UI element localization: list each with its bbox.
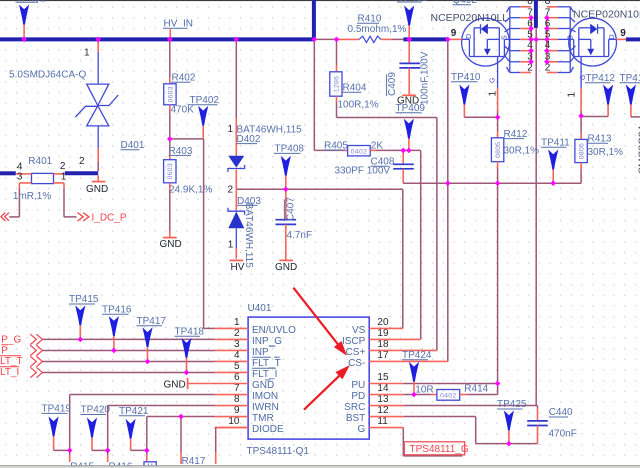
wire IWRN pin8 run <box>108 406 215 451</box>
value 24.9K,1% <box>169 184 212 195</box>
svg-text:CS+: CS+ <box>346 347 366 358</box>
wire BST pin12 run <box>369 417 476 444</box>
resistor R413 30R <box>575 116 587 183</box>
value 100nF,100V (rotated) <box>419 51 430 105</box>
pin name overbars <box>252 346 280 380</box>
svg-text:D: D <box>466 34 473 39</box>
wire bus vertical riser x=536 <box>534 0 538 28</box>
test point TP402 <box>188 95 220 139</box>
wire R414 right to PU <box>460 394 498 396</box>
test point TP409 <box>396 103 426 150</box>
svg-text:10R: 10R <box>415 385 433 396</box>
value BAT46WH,115 (D402) <box>237 125 303 136</box>
svg-text:LT_I: LT_I <box>0 367 19 378</box>
svg-text:NCEP020N10LL: NCEP020N10LL <box>573 8 640 20</box>
svg-text:P_G: P_G <box>1 335 21 346</box>
wire R403 bottom lead <box>169 183 171 237</box>
wire R401 bus right segment <box>65 171 98 175</box>
node HV_IN net label <box>163 18 193 37</box>
pin names U401 right <box>342 325 366 435</box>
window edge strip bottom <box>0 465 640 468</box>
value 470nF <box>549 428 577 439</box>
resistor R403 24.9K <box>164 139 176 183</box>
wire PU pin15 run <box>369 384 497 395</box>
value 330PF 100V <box>335 166 391 177</box>
value clipped right edge (rotated) <box>637 125 640 174</box>
value 100R,1% <box>338 100 379 111</box>
wire diode mid node horizontal to VS <box>237 188 403 190</box>
test point TP424 <box>402 350 432 395</box>
svg-text:30R,1%: 30R,1% <box>588 147 624 158</box>
svg-text:470nF: 470nF <box>549 428 577 439</box>
wire VS vertical to pin20 <box>402 189 404 328</box>
test point TP418 <box>175 327 205 373</box>
svg-text:14: 14 <box>377 383 389 394</box>
test point TP420 <box>81 405 111 451</box>
wire R402 bottom lead <box>169 105 171 139</box>
svg-text:BAT46WH,115: BAT46WH,115 <box>243 203 254 269</box>
svg-text:TP419: TP419 <box>42 404 72 415</box>
svg-text:CS-: CS- <box>348 358 365 369</box>
svg-text:10: 10 <box>228 416 240 427</box>
svg-text:5: 5 <box>234 361 240 372</box>
wire G pin11 run <box>369 428 462 456</box>
wire R402 top lead <box>169 41 171 83</box>
wire PD pin14 run <box>369 394 437 396</box>
wire HV_IN bus horizontal <box>0 37 314 41</box>
ground below C409 <box>397 95 419 106</box>
svg-text:1: 1 <box>61 171 67 182</box>
svg-text:TPS48111-Q1: TPS48111-Q1 <box>247 446 310 457</box>
ground below R403 <box>160 238 182 251</box>
svg-text:100R,1%: 100R,1% <box>338 100 379 111</box>
wire CS+ pin18 stub <box>369 349 437 351</box>
label U401 <box>248 303 272 314</box>
value 470K <box>171 105 195 116</box>
transistor Q402 left MOSFET NCEP020N10LL <box>448 18 510 66</box>
svg-text:HV_IN: HV_IN <box>164 18 193 29</box>
wire bus vertical riser x=314 <box>312 0 316 39</box>
test point TP410 <box>451 72 498 117</box>
svg-text:S: S <box>568 35 575 40</box>
wire D401 bottom lead <box>97 126 99 171</box>
wire gate-return horizontal run y=183 <box>403 182 581 184</box>
pin 1 G labels right gate <box>567 75 588 98</box>
svg-text:PD: PD <box>351 391 365 402</box>
svg-text:9: 9 <box>620 28 626 39</box>
test point TP411 <box>541 138 570 184</box>
wire R401 bus left segment <box>0 171 16 175</box>
svg-text:3: 3 <box>17 171 23 182</box>
wire D402 bottom lead <box>235 170 237 190</box>
wire EN/UVLO node vertical to U401 pin1 <box>204 139 215 329</box>
wire CS- pin17 stub <box>369 360 448 362</box>
svg-text:20: 20 <box>377 317 389 328</box>
svg-text:NCEP020N10LL: NCEP020N10LL <box>431 12 509 24</box>
value TPS48111-Q1 <box>247 446 310 457</box>
annotation arrow to CS+ <box>293 288 345 354</box>
svg-text:100nF,100V: 100nF,100V <box>419 51 430 105</box>
pin S D labels right MOSFET <box>568 34 616 40</box>
resistor R415 (clipped) <box>70 450 95 468</box>
svg-text:3: 3 <box>234 339 240 350</box>
resistor R412 30R <box>491 117 503 183</box>
resistor R401 1mR 4-terminal shunt <box>16 173 65 188</box>
svg-text:P: P <box>1 345 8 356</box>
svg-text:2: 2 <box>228 184 234 195</box>
svg-text:BST: BST <box>346 413 365 424</box>
wire INP_G / INP / FLT_T / FLT_I signal runs <box>42 339 214 372</box>
svg-text:12: 12 <box>377 405 389 416</box>
svg-text:9: 9 <box>451 28 457 39</box>
wire R417 branch <box>180 417 182 464</box>
wire CS+ horizontal run <box>337 117 437 119</box>
diode D402 schottky <box>228 156 245 172</box>
label R412 <box>504 129 528 140</box>
svg-text:D: D <box>609 34 616 39</box>
svg-text:1: 1 <box>234 317 240 328</box>
value 4.7nF <box>287 230 313 241</box>
label C407 (rotated) <box>284 197 296 221</box>
svg-text:TP403: TP403 <box>398 0 428 4</box>
svg-text:TP401: TP401 <box>16 0 46 5</box>
wire ISCP feed vertical from bus <box>314 41 347 150</box>
wire R401 pin1 to I_DC_P <box>64 189 77 217</box>
svg-text:2: 2 <box>79 156 85 167</box>
resistor R405 2K <box>348 146 371 156</box>
test point TP416 <box>102 305 132 351</box>
svg-text:1: 1 <box>228 124 234 135</box>
svg-text:11: 11 <box>377 416 388 427</box>
svg-text:0603: 0603 <box>167 86 174 102</box>
svg-text:PU: PU <box>351 380 365 391</box>
svg-text:GND: GND <box>160 239 182 250</box>
wire R405 right to ISCP corner <box>370 149 421 151</box>
label R401 <box>28 156 52 167</box>
svg-text:GND: GND <box>252 380 274 391</box>
test point TP401 (label clipped at top) <box>16 0 46 37</box>
ground below D401 <box>86 175 108 195</box>
wire D403 bottom lead <box>235 228 237 258</box>
svg-text:13: 13 <box>377 394 389 405</box>
resistor R410 zigzag <box>337 36 404 42</box>
diode D401 TVS 5.0SMDJ64CA-Q <box>75 84 118 126</box>
svg-text:1: 1 <box>228 240 234 251</box>
wire D402 top lead from bus <box>235 41 237 155</box>
value 0.5mohm,1% <box>348 24 407 35</box>
value 1mR,1% <box>13 191 51 202</box>
test point TP414 (clipped right) <box>620 73 640 117</box>
svg-text:HV: HV <box>231 262 245 273</box>
wire SRC pin13 run <box>369 405 537 407</box>
off-page chevron left <box>1 213 9 221</box>
capacitor C440 470nF <box>476 421 548 444</box>
svg-text:1: 1 <box>488 91 499 97</box>
value 2K <box>371 140 384 151</box>
value 10R <box>415 385 433 396</box>
wire ISCP vertical to pin19 <box>420 150 422 339</box>
svg-text:15: 15 <box>377 372 389 383</box>
label R410 <box>357 13 382 24</box>
value 30R,1% (R413) <box>588 147 624 158</box>
svg-text:TP421: TP421 <box>119 406 149 417</box>
capacitor C408 330PF <box>393 150 414 183</box>
label C408 <box>371 157 395 168</box>
label D402 <box>237 134 261 145</box>
test point TP417 <box>137 316 167 361</box>
svg-text:19: 19 <box>377 328 389 339</box>
resistor R416 (clipped) <box>108 450 133 468</box>
svg-text:TP420: TP420 <box>81 405 111 416</box>
pin 1 label D403 <box>228 240 234 251</box>
svg-text:S: S <box>502 35 509 40</box>
test point TP408 <box>274 144 304 190</box>
wire left ladder tie <box>530 18 532 62</box>
svg-text:SRC: SRC <box>344 402 365 413</box>
svg-text:I_DC_P: I_DC_P <box>92 212 127 223</box>
pin 9 label left MOSFET <box>451 28 457 39</box>
svg-text:G: G <box>358 424 366 435</box>
node labels clipped left edge <box>0 335 23 379</box>
label R405 <box>324 140 348 151</box>
wire drain thick segment 403-448 <box>403 37 447 41</box>
test point TP412 <box>581 73 615 117</box>
resistor R414 10R <box>437 390 460 401</box>
label D401 <box>121 140 145 151</box>
svg-text:R414: R414 <box>464 384 488 395</box>
pin numbers U401 right <box>377 317 389 427</box>
svg-text:9: 9 <box>234 405 240 416</box>
pin 1 G labels left gate <box>488 78 499 97</box>
wire divider node horizontal <box>170 138 204 140</box>
pin numbers left ladder <box>527 0 533 74</box>
label C409 (rotated) <box>387 72 398 96</box>
svg-text:IWRN: IWRN <box>252 402 279 413</box>
svg-text:1: 1 <box>84 48 90 59</box>
wire D401 top lead <box>97 41 99 84</box>
svg-text:0603: 0603 <box>167 163 174 179</box>
svg-text:C407: C407 <box>286 197 297 221</box>
svg-text:5.0SMDJ64CA-Q: 5.0SMDJ64CA-Q <box>9 70 86 81</box>
test point TP419 <box>42 404 72 451</box>
resistor R402 470K <box>164 84 176 105</box>
svg-text:2: 2 <box>527 63 533 74</box>
svg-text:IMON: IMON <box>252 391 278 402</box>
wire TMR pin9 run <box>147 417 215 451</box>
label R413 <box>588 134 612 145</box>
value 5.0SMDJ64CA-Q <box>9 70 86 81</box>
wire DIODE pin10 down <box>216 428 248 464</box>
test point TP415 <box>69 294 99 339</box>
annotation arrow to CS- <box>304 367 348 410</box>
wire ISCP pin19 stub <box>369 338 421 340</box>
svg-text:VS: VS <box>352 325 366 336</box>
wire SRC to C440 top <box>536 406 537 421</box>
connector left pin ladder Q402 pins 7-2 <box>510 7 531 73</box>
pin 1 label D401 <box>84 48 90 59</box>
svg-text:0805: 0805 <box>579 143 586 159</box>
wire PU net long vertical <box>497 183 499 383</box>
svg-text:18: 18 <box>377 339 389 350</box>
svg-text:GND: GND <box>164 380 186 391</box>
svg-text:1: 1 <box>567 92 578 98</box>
wire right ladder tie <box>546 18 548 62</box>
svg-text:TMR: TMR <box>252 413 274 424</box>
wire CS+ vertical to pin18 <box>436 118 438 351</box>
svg-text:6: 6 <box>234 372 240 383</box>
svg-text:8: 8 <box>545 0 551 7</box>
svg-text:470K: 470K <box>171 105 195 116</box>
svg-text:24.9K,1%: 24.9K,1% <box>169 184 212 195</box>
pin 2 label D402 <box>228 184 234 195</box>
svg-text:FLT_T: FLT_T <box>252 358 281 369</box>
resistor below TP421 (clipped) <box>144 450 156 468</box>
pin D S labels left MOSFET <box>466 34 508 40</box>
svg-text:INP_G: INP_G <box>252 336 282 347</box>
pin 1 label D402 <box>228 124 234 135</box>
label R402 <box>171 73 196 84</box>
svg-text:EN/UVLO: EN/UVLO <box>252 325 296 336</box>
svg-text:0402: 0402 <box>351 148 367 155</box>
svg-text:1206: 1206 <box>333 76 340 92</box>
wire left MOSFET gate <box>497 57 499 118</box>
svg-text:DIODE: DIODE <box>252 424 284 435</box>
svg-text:G: G <box>490 78 497 83</box>
node TPS48111_G net label <box>404 442 469 455</box>
svg-text:2: 2 <box>234 328 240 339</box>
svg-text:GND: GND <box>86 184 108 195</box>
test point TP403 (label clipped at top) <box>397 0 428 37</box>
svg-text:7: 7 <box>234 383 240 394</box>
wire ladder cross connection <box>531 38 547 40</box>
diode D403 schottky <box>228 189 245 228</box>
label Q402 (clipped top) <box>453 0 478 6</box>
pin numbers U401 left 1-10 <box>228 317 240 427</box>
svg-text:GND: GND <box>275 262 297 273</box>
wire R401 pin3 to off-page <box>9 189 19 217</box>
svg-text:17: 17 <box>377 350 389 361</box>
wire IMON pin7 run <box>70 395 215 451</box>
value 30R,1% (R412) <box>504 146 540 157</box>
pin 9 label right MOSFET <box>620 28 626 39</box>
wire right MOSFET gate <box>580 57 582 116</box>
test point TP421 <box>119 406 149 451</box>
svg-text:U401: U401 <box>248 303 272 314</box>
value NCEP020N10LL (left) <box>431 12 509 24</box>
svg-text:ISCP: ISCP <box>342 336 366 347</box>
connector right pin ladder Q402 pins 7-2 <box>547 7 570 73</box>
wire ladder fan connectors left <box>505 7 510 73</box>
label R414 <box>464 384 488 395</box>
svg-text:FLT_I: FLT_I <box>252 369 277 380</box>
label C440 <box>549 407 573 418</box>
svg-text:TPS48111_G: TPS48111_G <box>410 444 469 455</box>
svg-text:TP402: TP402 <box>190 95 220 106</box>
wire ladder fan connectors right <box>570 7 575 73</box>
ground at U401 pin6 <box>164 378 249 391</box>
svg-text:INP: INP <box>252 347 269 358</box>
pin numbers R401 <box>17 161 67 182</box>
svg-text:4: 4 <box>234 350 240 361</box>
svg-text:C409: C409 <box>387 72 398 96</box>
label R417 <box>182 456 206 467</box>
label D403 <box>237 196 261 207</box>
svg-text:0805: 0805 <box>495 142 502 158</box>
wire right drain thick segment to edge <box>626 37 640 41</box>
wire CS- vertical drain sense <box>447 39 449 361</box>
power HV below D403 <box>230 260 245 273</box>
svg-text:30R,1%: 30R,1% <box>504 146 540 157</box>
transistor Q402 right MOSFET NCEP020N10LL <box>569 18 626 66</box>
label R404 <box>343 83 367 94</box>
test point TP425 <box>497 399 527 443</box>
wire source net long vertical x=536 <box>535 28 537 406</box>
pin names U401 left <box>252 325 296 435</box>
op-amp U401 TPS48111-Q1 controller box <box>248 317 369 439</box>
svg-text:8: 8 <box>527 0 533 7</box>
svg-text:0.5mohm,1%: 0.5mohm,1% <box>348 24 407 35</box>
capacitor C407 4.7nF <box>276 189 297 259</box>
svg-text:330PF 100V: 330PF 100V <box>335 166 391 177</box>
capacitor C409 100nF,100V <box>399 41 420 94</box>
svg-text:8: 8 <box>234 394 240 405</box>
svg-text:R401: R401 <box>28 156 52 167</box>
svg-text:Q402: Q402 <box>453 0 478 6</box>
wire VS pin20 stub <box>369 327 403 329</box>
value BAT46WH,115 (D403, rotated) <box>243 203 254 269</box>
resistor R404 100R <box>330 41 342 117</box>
label R403 <box>169 146 193 157</box>
svg-text:SMC8C24: SMC8C24 <box>637 125 640 174</box>
off-page chevrons signal wires <box>30 334 42 377</box>
svg-text:LT_T: LT_T <box>0 356 23 367</box>
pin numbers right ladder <box>545 0 551 74</box>
wire thin bus segment 314-336 <box>314 38 336 40</box>
svg-text:0402: 0402 <box>440 392 456 399</box>
pin 2 label D401 <box>79 156 85 167</box>
svg-text:4.7nF: 4.7nF <box>287 230 313 241</box>
ground below C407 <box>275 260 297 273</box>
svg-text:2: 2 <box>545 63 551 74</box>
wire U401 left pin stubs <box>215 328 249 427</box>
value NCEP020N10LL (right) <box>573 8 640 20</box>
node I_DC_P chevron and label <box>78 212 127 223</box>
